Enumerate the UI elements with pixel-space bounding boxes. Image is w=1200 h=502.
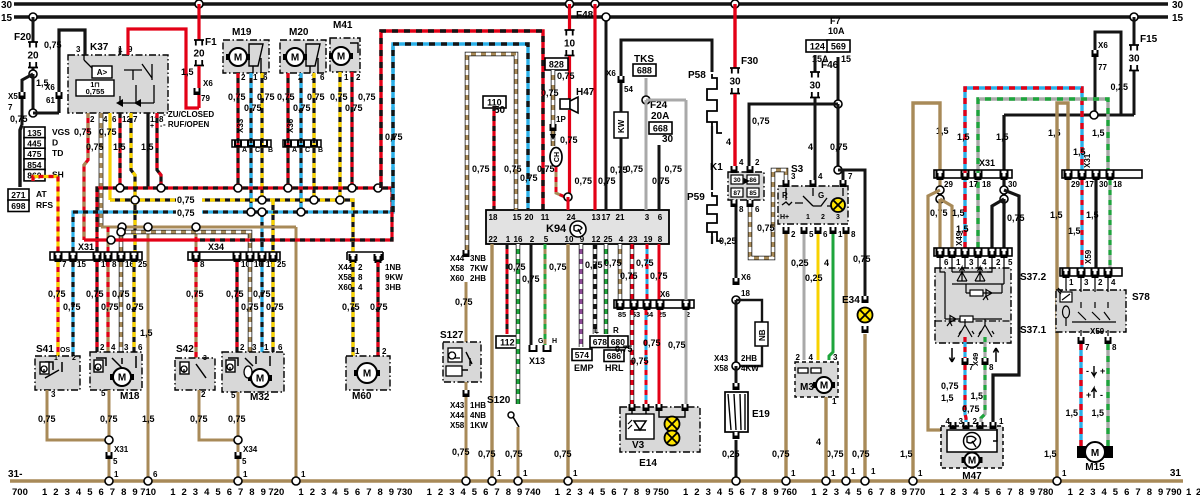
connector pin bbox=[375, 256, 382, 263]
fuse F20 bbox=[28, 42, 38, 68]
wire to 271 AT bbox=[20, 125, 22, 187]
svg-text:4: 4 bbox=[973, 487, 979, 498]
connector pin bbox=[962, 173, 969, 180]
svg-text:0,25: 0,25 bbox=[719, 236, 737, 246]
wire X6-84 blue/red to E14 bbox=[645, 310, 648, 404]
code 860 bbox=[24, 169, 45, 181]
svg-text:6: 6 bbox=[99, 487, 104, 498]
code 574 bbox=[572, 349, 592, 361]
node bbox=[936, 186, 944, 194]
node bbox=[732, 296, 740, 304]
svg-text:4: 4 bbox=[982, 258, 987, 267]
wire X6-53 white/red to E14 bbox=[630, 310, 635, 404]
connector 1P bbox=[550, 124, 557, 131]
svg-text:X44: X44 bbox=[450, 411, 465, 420]
svg-text:20: 20 bbox=[525, 213, 534, 222]
wire H2 black/yellow distribution bbox=[110, 200, 353, 252]
wire bbox=[32, 68, 35, 74]
svg-text:7: 7 bbox=[8, 103, 13, 112]
wire X34-16 to M32 brown/white bbox=[248, 262, 253, 352]
wire brown to mirror pin 1 bbox=[940, 199, 952, 248]
svg-text:2: 2 bbox=[201, 390, 206, 399]
svg-text:3: 3 bbox=[645, 213, 650, 222]
svg-text:8: 8 bbox=[378, 487, 383, 498]
connector pin bbox=[975, 173, 982, 180]
svg-text:50: 50 bbox=[494, 105, 506, 116]
wire loop white/brown to S127 bbox=[467, 54, 516, 250]
wire K37-6 yellow bbox=[108, 113, 111, 200]
svg-text:AT: AT bbox=[36, 189, 48, 199]
svg-text:-: - bbox=[1100, 390, 1103, 400]
fuse bbox=[1129, 45, 1139, 71]
connector X5 pin 7 bbox=[19, 92, 26, 99]
svg-text:0,25: 0,25 bbox=[722, 449, 740, 459]
svg-text:X60: X60 bbox=[338, 283, 353, 292]
ECU K94 box bbox=[486, 210, 669, 244]
svg-text:445: 445 bbox=[27, 139, 41, 149]
connector X31 pin 5 bbox=[106, 452, 113, 459]
svg-text:4: 4 bbox=[332, 487, 338, 498]
node bbox=[1000, 186, 1008, 194]
svg-text:OS: OS bbox=[60, 347, 70, 354]
wire junction bbox=[131, 196, 139, 204]
svg-text:M18: M18 bbox=[120, 391, 140, 402]
svg-text:3: 3 bbox=[449, 487, 454, 498]
svg-text:M15: M15 bbox=[1085, 462, 1105, 473]
svg-text:2: 2 bbox=[791, 230, 796, 239]
svg-text:0,75: 0,75 bbox=[266, 302, 284, 312]
svg-text:X33: X33 bbox=[236, 118, 245, 133]
svg-text:710: 710 bbox=[140, 487, 156, 498]
svg-text:M60: M60 bbox=[352, 391, 372, 402]
svg-text:22: 22 bbox=[489, 235, 498, 244]
wire K37-8 black/red bbox=[157, 113, 161, 188]
svg-text:0,75: 0,75 bbox=[293, 103, 311, 113]
wire junction bbox=[297, 208, 305, 216]
svg-text:6: 6 bbox=[996, 487, 1001, 498]
svg-text:5: 5 bbox=[472, 487, 478, 498]
svg-text:2: 2 bbox=[951, 487, 956, 498]
svg-text:15: 15 bbox=[77, 260, 86, 269]
node track 737 bbox=[488, 477, 496, 485]
connector bbox=[733, 432, 740, 439]
svg-text:6: 6 bbox=[153, 470, 158, 479]
svg-text:S127: S127 bbox=[440, 330, 464, 341]
svg-text:3: 3 bbox=[65, 487, 70, 498]
E14 internal wiring bbox=[632, 411, 685, 417]
svg-text:1: 1 bbox=[683, 487, 689, 498]
svg-text:-: - bbox=[1086, 366, 1089, 376]
svg-text:1: 1 bbox=[806, 214, 810, 221]
svg-text:7: 7 bbox=[848, 172, 853, 181]
svg-text:0,75: 0,75 bbox=[385, 132, 403, 142]
wire gray TKS to F24 bbox=[645, 78, 648, 100]
pin M47-3 bbox=[963, 422, 970, 429]
node bbox=[1000, 195, 1008, 203]
node track 780 bbox=[1053, 477, 1061, 485]
svg-text:F30: F30 bbox=[741, 56, 759, 67]
svg-text:30: 30 bbox=[1, 0, 13, 11]
node bbox=[936, 195, 944, 203]
svg-text:18: 18 bbox=[1113, 180, 1122, 189]
connector X13 bbox=[530, 345, 551, 351]
svg-text:4: 4 bbox=[739, 158, 744, 167]
wire H6b red/black bbox=[200, 188, 392, 240]
wire junction bbox=[258, 196, 266, 204]
svg-text:F15: F15 bbox=[1140, 34, 1158, 45]
svg-text:8: 8 bbox=[989, 363, 994, 372]
connector pin bbox=[989, 251, 996, 258]
wire junction bbox=[310, 196, 318, 204]
svg-text:0,75: 0,75 bbox=[112, 289, 130, 299]
svg-text:1: 1 bbox=[838, 230, 843, 239]
svg-text:0,75: 0,75 bbox=[598, 176, 616, 186]
svg-text:668: 668 bbox=[653, 124, 668, 134]
svg-text:0,75: 0,75 bbox=[508, 262, 526, 272]
svg-text:E19: E19 bbox=[752, 409, 770, 420]
connector X6 pin 77 bbox=[1092, 50, 1099, 57]
wire to CH white bbox=[551, 131, 556, 146]
svg-text:1: 1 bbox=[170, 487, 176, 498]
svg-text:3: 3 bbox=[836, 214, 840, 221]
svg-text:3: 3 bbox=[1084, 278, 1089, 287]
svg-text:87: 87 bbox=[733, 190, 741, 197]
svg-text:9: 9 bbox=[132, 487, 137, 498]
svg-text:1P: 1P bbox=[556, 115, 566, 124]
wire junction bbox=[258, 208, 266, 216]
svg-text:1,5: 1,5 bbox=[957, 132, 970, 142]
wire to S3-4 bbox=[814, 98, 817, 180]
svg-text:6: 6 bbox=[263, 73, 268, 82]
wire bbox=[197, 95, 200, 108]
svg-text:854: 854 bbox=[27, 160, 41, 170]
connector pin bbox=[617, 303, 624, 310]
svg-text:15: 15 bbox=[1, 13, 13, 24]
wire junction bbox=[117, 228, 125, 236]
node track 735 bbox=[462, 477, 470, 485]
wire S120 out brown bbox=[517, 427, 520, 478]
wire green/gray to M47-2 bbox=[981, 365, 985, 422]
pin S3-8 bbox=[843, 227, 850, 234]
wire black to mirror pin 2 bbox=[992, 199, 1004, 248]
svg-text:9: 9 bbox=[580, 235, 585, 244]
svg-text:17: 17 bbox=[602, 213, 611, 222]
code 124 bbox=[806, 40, 829, 52]
node track 710 bbox=[144, 477, 152, 485]
svg-text:0,75: 0,75 bbox=[625, 164, 643, 174]
svg-text:3: 3 bbox=[791, 172, 796, 181]
connector pin bbox=[1093, 173, 1100, 180]
svg-text:0,25: 0,25 bbox=[805, 273, 823, 283]
svg-text:7: 7 bbox=[366, 487, 371, 498]
component box bbox=[223, 40, 269, 73]
svg-text:0,75: 0,75 bbox=[752, 116, 770, 126]
svg-text:6: 6 bbox=[868, 487, 873, 498]
wire K94-16 green/white to S120 bbox=[516, 244, 521, 404]
wire K37-11 black bbox=[146, 113, 149, 188]
svg-text:1: 1 bbox=[114, 470, 119, 479]
fuse F46 bbox=[814, 55, 817, 72]
svg-text:4: 4 bbox=[1111, 278, 1116, 287]
svg-text:9: 9 bbox=[645, 487, 650, 498]
svg-text:2: 2 bbox=[90, 115, 95, 124]
wire M19-6 black/yellow bbox=[260, 73, 263, 200]
svg-text:X60: X60 bbox=[450, 274, 465, 283]
svg-text:0,75: 0,75 bbox=[652, 176, 670, 186]
wire KW code bbox=[614, 112, 628, 138]
svg-text:3: 3 bbox=[51, 390, 56, 399]
svg-text:G: G bbox=[818, 191, 824, 200]
svg-text:X43: X43 bbox=[450, 401, 465, 410]
wire S3 pin3 brown/white loop from K1-6 bbox=[750, 170, 786, 258]
wire brown branch to M47-4 bbox=[928, 190, 953, 430]
svg-text:5: 5 bbox=[215, 487, 221, 498]
svg-text:8: 8 bbox=[112, 260, 117, 269]
svg-text:0,25: 0,25 bbox=[791, 258, 809, 268]
svg-text:K94: K94 bbox=[546, 223, 567, 235]
svg-text:25: 25 bbox=[277, 260, 286, 269]
svg-text:X59: X59 bbox=[1090, 327, 1105, 336]
svg-text:7: 7 bbox=[879, 487, 884, 498]
svg-text:8: 8 bbox=[121, 487, 126, 498]
svg-text:7: 7 bbox=[1085, 343, 1090, 352]
svg-text:C: C bbox=[255, 147, 260, 154]
connector X6 pin 54 bbox=[618, 76, 625, 83]
connector pin bbox=[131, 255, 138, 262]
svg-text:5: 5 bbox=[1008, 258, 1013, 267]
svg-text:S78: S78 bbox=[1132, 292, 1150, 303]
node bus15/K94-17 bbox=[602, 13, 610, 21]
code 680 bbox=[608, 336, 628, 348]
svg-text:4: 4 bbox=[589, 487, 595, 498]
svg-text:6: 6 bbox=[355, 487, 360, 498]
connector pin bbox=[270, 255, 277, 262]
wire brown to mirror pin 6 bbox=[938, 199, 941, 248]
svg-text:1: 1 bbox=[918, 469, 923, 478]
wire K94-20 blue/black bbox=[526, 208, 529, 210]
connector pin bbox=[350, 256, 357, 263]
svg-text:X6: X6 bbox=[606, 69, 616, 78]
wire junction bbox=[234, 184, 242, 192]
wire CH to K94-24 bbox=[556, 167, 565, 197]
svg-text:1: 1 bbox=[1069, 278, 1074, 287]
wire bbox=[711, 236, 713, 244]
wire brown to S78-1 bbox=[1066, 180, 1069, 268]
connector pin bbox=[1001, 251, 1008, 258]
svg-text:79: 79 bbox=[201, 94, 210, 103]
wire 828 brown bbox=[551, 70, 556, 124]
svg-text:K1: K1 bbox=[710, 162, 723, 173]
connector pin bbox=[937, 173, 944, 180]
pin M47-2 bbox=[977, 422, 984, 429]
svg-text:0,75: 0,75 bbox=[554, 449, 572, 459]
svg-text:0,75: 0,75 bbox=[537, 164, 555, 174]
connector pin bbox=[1107, 173, 1114, 180]
pin S3-5 bbox=[801, 227, 808, 234]
lamp bbox=[858, 308, 873, 323]
svg-text:124: 124 bbox=[810, 42, 825, 52]
svg-text:7: 7 bbox=[1135, 487, 1140, 498]
svg-text:2HB: 2HB bbox=[470, 274, 486, 283]
wire K94-6 black bbox=[658, 145, 661, 210]
wire X31-25 drop bbox=[133, 200, 136, 252]
svg-text:1: 1 bbox=[999, 417, 1004, 426]
svg-text:5: 5 bbox=[1113, 487, 1119, 498]
wire gray from F24/668 to E14 bbox=[685, 100, 688, 300]
svg-text:4: 4 bbox=[358, 283, 363, 292]
wire black bar y115 bbox=[1004, 114, 1134, 117]
svg-text:1: 1 bbox=[523, 469, 528, 478]
connector pin bbox=[937, 251, 944, 258]
svg-text:2: 2 bbox=[241, 73, 246, 82]
svg-text:0,75: 0,75 bbox=[452, 447, 470, 457]
svg-text:54: 54 bbox=[624, 85, 633, 94]
svg-text:4: 4 bbox=[111, 343, 116, 352]
svg-text:X5: X5 bbox=[8, 92, 18, 101]
wire junction bbox=[107, 236, 115, 244]
svg-text:24: 24 bbox=[567, 213, 576, 222]
svg-text:4: 4 bbox=[717, 487, 723, 498]
svg-text:0,75: 0,75 bbox=[38, 414, 56, 424]
svg-text:2: 2 bbox=[53, 487, 58, 498]
svg-text:4: 4 bbox=[204, 487, 210, 498]
wire brown hook right bbox=[1057, 103, 1068, 481]
svg-text:0,75: 0,75 bbox=[541, 88, 559, 98]
svg-text:6: 6 bbox=[944, 258, 949, 267]
svg-text:EMP: EMP bbox=[574, 363, 594, 373]
svg-text:8: 8 bbox=[634, 487, 639, 498]
wire M41-1 black/yellow bbox=[338, 72, 341, 200]
svg-text:3: 3 bbox=[124, 343, 129, 352]
svg-text:0,75: 0,75 bbox=[101, 302, 119, 312]
wire bbox=[197, 66, 200, 88]
svg-text:3NB: 3NB bbox=[470, 254, 486, 263]
svg-text:1: 1 bbox=[1062, 469, 1067, 478]
svg-text:0,75: 0,75 bbox=[504, 164, 522, 174]
svg-text:M: M bbox=[118, 373, 126, 384]
motor M3 bbox=[795, 362, 838, 397]
svg-text:5: 5 bbox=[344, 487, 350, 498]
connector pin bbox=[70, 255, 77, 262]
svg-text:11: 11 bbox=[541, 213, 550, 222]
svg-text:20: 20 bbox=[193, 49, 205, 60]
svg-text:3: 3 bbox=[193, 487, 198, 498]
wire bbox=[735, 300, 738, 366]
svg-text:1,5: 1,5 bbox=[1086, 210, 1099, 220]
svg-text:0,75: 0,75 bbox=[757, 223, 775, 233]
svg-text:X43: X43 bbox=[714, 354, 729, 363]
svg-text:0,75: 0,75 bbox=[520, 173, 538, 183]
svg-text:15: 15 bbox=[841, 54, 851, 64]
svg-text:1,5: 1,5 bbox=[970, 391, 983, 401]
svg-text:700: 700 bbox=[12, 487, 28, 498]
svg-text:- ZU/CLOSED: - ZU/CLOSED bbox=[163, 110, 214, 119]
wire code569 down to S3-7/E34 bbox=[837, 104, 840, 170]
svg-text:780: 780 bbox=[1038, 487, 1054, 498]
fuse F1 red feed bbox=[197, 4, 200, 40]
pump M47 bbox=[941, 426, 1003, 468]
svg-text:2: 2 bbox=[821, 214, 825, 221]
svg-text:1,5: 1,5 bbox=[1044, 449, 1057, 459]
resistor bbox=[707, 192, 722, 241]
svg-text:L: L bbox=[594, 326, 599, 335]
code 569 bbox=[827, 40, 850, 52]
diode V3 bbox=[634, 421, 646, 430]
svg-text:30: 30 bbox=[1008, 180, 1017, 189]
svg-text:0,75: 0,75 bbox=[253, 289, 271, 299]
motor symbol bbox=[962, 457, 983, 463]
wire bbox=[568, 56, 571, 99]
connector pin bbox=[1063, 271, 1070, 278]
svg-text:6: 6 bbox=[658, 213, 663, 222]
wire junction bbox=[116, 184, 124, 192]
node bus30/F48 bbox=[566, 0, 574, 8]
svg-text:X58: X58 bbox=[450, 264, 465, 273]
wire black to S78-2 bbox=[1094, 180, 1097, 268]
svg-text:271: 271 bbox=[11, 190, 25, 200]
motor symbol bbox=[248, 375, 272, 381]
code 668 bbox=[649, 122, 672, 134]
svg-text:0,75: 0,75 bbox=[177, 208, 195, 218]
svg-text:5: 5 bbox=[856, 487, 862, 498]
svg-text:16: 16 bbox=[514, 235, 523, 244]
svg-text:4: 4 bbox=[726, 137, 731, 147]
svg-text:C: C bbox=[305, 147, 310, 154]
svg-text:0,75: 0,75 bbox=[941, 381, 959, 391]
wire X34-8 to S42 brown/red bbox=[194, 262, 197, 362]
svg-text:6: 6 bbox=[138, 343, 143, 352]
svg-text:4: 4 bbox=[816, 437, 821, 447]
svg-text:P59: P59 bbox=[687, 192, 705, 203]
connector pin bbox=[644, 303, 651, 310]
wire blue/red to S78-3 bbox=[1080, 180, 1083, 268]
svg-text:F48: F48 bbox=[576, 10, 594, 21]
wire loop outer red/black (F1 circuit to K94) bbox=[381, 31, 543, 210]
svg-text:F7: F7 bbox=[830, 16, 841, 26]
wire X34-10 to M32 red/black bbox=[235, 262, 238, 352]
svg-text:3: 3 bbox=[959, 417, 964, 426]
svg-text:30: 30 bbox=[1099, 180, 1108, 189]
svg-text:0,75: 0,75 bbox=[226, 289, 244, 299]
svg-text:1: 1 bbox=[264, 343, 269, 352]
svg-text:0,75: 0,75 bbox=[615, 344, 633, 354]
component box bbox=[68, 55, 168, 113]
wire green/gray to S78-4 bbox=[1108, 180, 1111, 268]
svg-text:17: 17 bbox=[969, 180, 978, 189]
svg-text:0,75: 0,75 bbox=[257, 92, 275, 102]
wire S3-2 brown bbox=[784, 234, 787, 478]
svg-text:8: 8 bbox=[762, 487, 767, 498]
svg-text:9: 9 bbox=[261, 487, 266, 498]
svg-text:3: 3 bbox=[962, 487, 967, 498]
wire M20-1 black/blue bbox=[299, 73, 302, 212]
svg-text:1,5: 1,5 bbox=[142, 414, 155, 424]
pin K1-4 bbox=[731, 166, 738, 173]
arrow down bbox=[949, 348, 954, 362]
connector pin bbox=[193, 255, 200, 262]
component box bbox=[280, 40, 326, 73]
wire S42-2 brown bbox=[199, 390, 238, 440]
svg-text:M: M bbox=[234, 53, 242, 64]
svg-text:0,75: 0,75 bbox=[126, 302, 144, 312]
pin M47-4 bbox=[950, 422, 957, 429]
wire S3-7 bbox=[842, 170, 845, 180]
svg-text:10: 10 bbox=[564, 39, 576, 50]
node track 762 bbox=[842, 477, 850, 485]
svg-text:7: 7 bbox=[751, 487, 756, 498]
svg-text:0,75: 0,75 bbox=[472, 164, 490, 174]
connector pin bbox=[247, 255, 254, 262]
